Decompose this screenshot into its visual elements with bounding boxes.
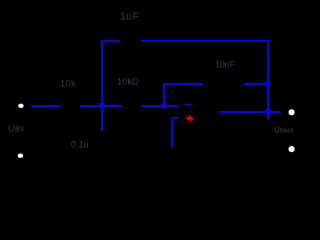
svg-text:1uF: 1uF — [120, 11, 139, 23]
wire top rail right segment — [141, 40, 269, 42]
wire R1 to node A — [80, 105, 103, 107]
wire R3 to node B — [142, 105, 164, 107]
wire vertical riser node A up to top rail and stub down below A — [101, 40, 103, 131]
terminal input bottom — [18, 154, 24, 158]
node C junction — [265, 82, 270, 87]
wire feedback upper right segment — [244, 83, 266, 85]
terminal output bottom — [289, 146, 295, 152]
wire op-amp output to node D and output terminal — [219, 111, 282, 113]
svg-text:0.1u: 0.1u — [71, 140, 89, 150]
wire non-inverting input down to ground — [171, 117, 173, 148]
terminal output top — [289, 109, 295, 115]
node B junction — [161, 103, 166, 108]
wire right vertical rail — [267, 40, 269, 119]
svg-text:Uвх: Uвх — [8, 124, 25, 135]
svg-text:10kΩ: 10kΩ — [117, 77, 139, 87]
wire node A to R3 — [102, 105, 123, 107]
wire top rail left segment — [101, 40, 120, 42]
wire node B to op-amp inverting input — [164, 105, 179, 107]
svg-text:10k: 10k — [60, 78, 76, 88]
node A junction — [99, 103, 104, 108]
node D junction — [265, 110, 270, 115]
wire op-amp non-inverting input tick — [171, 117, 178, 119]
wire node B vertical up — [163, 84, 165, 106]
svg-text:Uвых: Uвых — [274, 126, 294, 135]
wire input segment left — [31, 105, 62, 107]
terminal input top — [18, 104, 24, 108]
op-amp U1 minus sign — [185, 104, 193, 106]
wire feedback upper left segment — [163, 83, 203, 85]
svg-text:10nF: 10nF — [215, 60, 235, 70]
op-amp U1 plus sign (non-inverting marker) — [186, 115, 194, 121]
